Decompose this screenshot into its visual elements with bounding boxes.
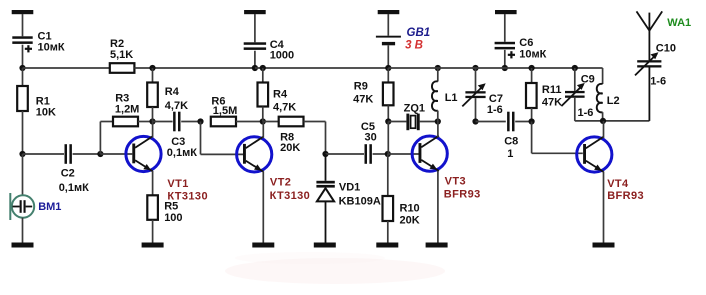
label R9	[353, 81, 373, 106]
svg-text:VT2: VT2	[270, 176, 291, 188]
svg-text:VD1: VD1	[339, 182, 360, 194]
wire R11 to C8 node	[531, 108, 533, 122]
wire C6 to rail	[504, 50, 506, 68]
wire VT3 emitter	[437, 171, 439, 243]
wire to ZQ1	[388, 121, 406, 123]
node ZQ1 left junction	[385, 118, 391, 124]
crystal ZQ1	[406, 114, 419, 131]
wire VT4 collector	[603, 121, 605, 138]
wire R3 left lead	[100, 121, 113, 123]
svg-text:BFR93: BFR93	[444, 189, 481, 201]
svg-text:1,5M: 1,5M	[213, 105, 237, 117]
capacitor C5	[365, 144, 372, 164]
wire R8 to VD1 corner	[304, 122, 326, 155]
svg-text:0,1мК: 0,1мК	[167, 147, 197, 159]
resistor R1	[17, 86, 28, 111]
wire R10 to ground	[387, 221, 389, 243]
wire VT2 base riser	[201, 122, 244, 155]
ground (VT3)	[426, 243, 448, 248]
battery GB1	[376, 36, 401, 46]
node VD1 junction	[322, 151, 328, 157]
node C8 junction	[529, 118, 535, 124]
svg-text:GB1: GB1	[407, 27, 431, 39]
svg-text:VT3: VT3	[445, 176, 466, 188]
node VT2 collector junction	[260, 118, 266, 124]
svg-text:3 В: 3 В	[405, 40, 423, 52]
svg-text:1-6: 1-6	[578, 107, 594, 119]
background smudge	[225, 258, 445, 284]
label R1	[36, 95, 56, 118]
wire rail R2 to C4	[134, 67, 255, 69]
wire VD1 node to C5	[326, 153, 365, 155]
wire VT4 base route	[532, 122, 583, 154]
resistor R6	[211, 117, 236, 127]
svg-text:WA1: WA1	[667, 17, 691, 29]
svg-text:C10: C10	[656, 43, 676, 55]
wire R9 stem	[387, 68, 389, 83]
wire R5 to ground	[152, 220, 154, 243]
wire R3 node riser	[99, 122, 101, 155]
ground (VT4)	[593, 243, 615, 248]
label R5	[164, 200, 182, 224]
wire top rail left segment	[23, 67, 111, 69]
label VT1	[167, 178, 208, 202]
node L2 bottom junction	[600, 118, 606, 124]
svg-text:VT1: VT1	[167, 178, 188, 190]
wire C1 to rail	[22, 45, 24, 68]
svg-text:R10: R10	[400, 203, 420, 215]
resistor R4 (second)	[258, 83, 269, 107]
node R3 feed junction	[97, 151, 103, 157]
svg-text:10мК: 10мК	[519, 49, 546, 61]
label R2	[110, 38, 133, 61]
wire R10 stem	[387, 154, 389, 196]
label C8	[504, 136, 518, 160]
resistor R10	[383, 196, 394, 221]
label R3	[115, 93, 139, 116]
capacitor C9 (trimmer)	[561, 68, 584, 121]
svg-text:BFR93: BFR93	[607, 190, 644, 202]
resistor R2	[110, 63, 135, 73]
node C9 rail junction	[572, 65, 578, 71]
wire base VT1	[100, 153, 132, 155]
label R11	[542, 84, 562, 108]
node R4b rail junction	[260, 65, 266, 71]
wire node to R8	[263, 121, 279, 123]
ground (VD1)	[314, 243, 336, 248]
resistor R4 (first)	[147, 83, 158, 108]
svg-text:1,2M: 1,2M	[115, 104, 139, 116]
svg-text:C8: C8	[504, 136, 518, 148]
transistor VT2	[237, 137, 272, 172]
power return bar (top, C6)	[495, 10, 517, 14]
wire R1 stem top	[22, 68, 24, 86]
capacitor C3	[173, 112, 180, 132]
varicap VD1	[316, 154, 334, 243]
wire node to C3	[153, 121, 173, 123]
label C9	[578, 74, 595, 119]
wire R4a to node	[152, 107, 154, 122]
wire tank node down	[387, 122, 389, 155]
label R4 first	[165, 86, 188, 112]
wire mid line to C2	[23, 153, 65, 155]
svg-text:47K: 47K	[353, 94, 373, 106]
node VT3 base junction	[385, 151, 391, 157]
svg-text:L1: L1	[445, 92, 458, 104]
svg-text:КТ3130: КТ3130	[270, 190, 311, 202]
capacitor C7 (trimmer)	[462, 68, 485, 122]
ground (BM1)	[12, 243, 34, 248]
resistor R9	[383, 83, 394, 106]
svg-text:C2: C2	[61, 168, 75, 180]
wire VT3 base	[388, 153, 419, 155]
svg-text:100: 100	[164, 212, 182, 224]
svg-text:47K: 47K	[542, 97, 562, 109]
node L1 bottom junction	[435, 118, 441, 124]
svg-text:1000: 1000	[270, 49, 294, 61]
wire GB1 to rail	[387, 45, 389, 68]
wire C1 top stem	[22, 14, 24, 36]
label R6	[211, 96, 237, 117]
label C2	[59, 168, 89, 194]
label WA1	[667, 17, 691, 29]
node R11 rail junction	[529, 65, 535, 71]
capacitor C1	[12, 36, 32, 52]
inductor L2	[597, 68, 603, 121]
svg-text:L2: L2	[607, 95, 620, 107]
label ZQ1	[404, 102, 425, 114]
node GB1 rail junction	[385, 65, 391, 71]
svg-text:R4: R4	[273, 89, 288, 101]
wire rail C4 to GB1	[255, 67, 388, 69]
svg-text:ZQ1: ZQ1	[404, 102, 425, 114]
capacitor C2	[65, 144, 72, 164]
label C5	[361, 121, 377, 144]
wire VT2 collector	[262, 122, 264, 138]
label C3	[167, 136, 197, 159]
power return bar (top, C1)	[12, 10, 34, 14]
svg-text:4,7K: 4,7K	[165, 100, 188, 112]
capacitor C6	[495, 42, 515, 59]
svg-text:VT4: VT4	[607, 178, 629, 190]
resistor R11	[526, 83, 537, 108]
wire rail GB1 to L2	[388, 67, 602, 69]
label C6	[519, 37, 546, 61]
node mid-left junction	[19, 151, 25, 157]
svg-text:5,1K: 5,1K	[110, 49, 133, 61]
svg-text:C9: C9	[581, 74, 595, 86]
wire C5 to VT3 node	[373, 153, 388, 155]
label C10	[650, 43, 676, 88]
node C6 rail junction	[502, 65, 508, 71]
wire R4a stem top	[152, 68, 154, 83]
resistor R5	[147, 195, 158, 220]
svg-text:4,7K: 4,7K	[273, 102, 296, 114]
svg-text:R11: R11	[542, 84, 562, 96]
wire VT4 emitter	[603, 172, 605, 243]
svg-text:1-6: 1-6	[487, 104, 503, 116]
svg-text:C6: C6	[519, 37, 533, 49]
svg-text:30: 30	[365, 132, 377, 144]
antenna WA1	[637, 11, 663, 60]
resistor R8	[279, 117, 304, 127]
label GB1	[405, 27, 430, 52]
wire GB1 top stem	[387, 14, 389, 36]
svg-text:R9: R9	[354, 81, 368, 93]
ground (R10)	[376, 243, 398, 248]
wire VT3 collector	[437, 122, 439, 138]
label VD1	[339, 182, 381, 208]
wire C4 top stem	[254, 14, 256, 42]
svg-text:10мК: 10мК	[38, 42, 65, 54]
label R10	[400, 203, 420, 227]
label C1 value	[38, 31, 65, 54]
label R8	[280, 131, 300, 154]
node rail-left junction	[19, 65, 25, 71]
svg-text:C3: C3	[171, 136, 185, 148]
node R4a rail junction	[149, 65, 155, 71]
wire R3 to node	[138, 121, 153, 123]
power return bar (top, GB1)	[378, 10, 400, 14]
node R6 left junction	[197, 118, 203, 124]
label R4 second	[273, 89, 296, 114]
svg-text:10K: 10K	[36, 106, 56, 118]
svg-text:R5: R5	[164, 200, 178, 212]
svg-text:1-6: 1-6	[650, 76, 666, 88]
wire VT2 emitter	[262, 171, 264, 242]
svg-text:20K: 20K	[400, 215, 420, 227]
transistor VT3	[412, 136, 447, 171]
ground (VT2)	[252, 243, 274, 248]
wire R11 stem	[531, 68, 533, 83]
microphone BM1	[10, 193, 34, 220]
node L1 rail junction	[435, 65, 441, 71]
svg-text:R4: R4	[165, 86, 180, 98]
wire C2 to R3 node	[73, 153, 101, 155]
ground (R5)	[142, 243, 164, 248]
wire C9 bottom line	[575, 120, 650, 122]
wire R1 to mid line	[22, 111, 24, 154]
node C7 rail junction	[472, 65, 478, 71]
wire mic to ground	[22, 218, 24, 243]
node C4 rail junction	[252, 65, 258, 71]
wire C8 to node	[515, 121, 531, 123]
label C4	[270, 39, 294, 61]
wire VT1 collector	[152, 122, 154, 138]
label C7	[487, 93, 503, 116]
wire R9 to tank node	[387, 105, 389, 121]
svg-text:0,1мК: 0,1мК	[59, 182, 89, 194]
svg-text:1: 1	[507, 148, 513, 160]
wire C7 node to C8	[476, 121, 506, 123]
wire R4b stem	[262, 68, 264, 83]
wire ZQ1 to L1 node	[420, 121, 438, 123]
label BM1	[38, 201, 61, 213]
power return bar (top, C4)	[244, 10, 266, 14]
wire mic stem top	[22, 154, 24, 196]
svg-text:20K: 20K	[280, 142, 300, 154]
wire C3 to R6 node	[181, 121, 200, 123]
wire C4 to rail	[254, 51, 256, 68]
label VT2	[270, 176, 311, 202]
svg-text:KB109A: KB109A	[339, 196, 381, 208]
inductor L1	[432, 68, 438, 122]
capacitor C4	[244, 42, 266, 50]
wire R4b to node	[262, 107, 264, 122]
node VT1 collector junction	[149, 118, 155, 124]
svg-text:BM1: BM1	[38, 201, 61, 213]
label VT4	[607, 178, 644, 202]
transistor VT1	[126, 136, 161, 171]
capacitor C8	[507, 112, 514, 132]
resistor R3	[113, 117, 138, 127]
label VT3	[444, 176, 481, 201]
wire R6 to VT2 node	[236, 121, 263, 123]
transistor VT4	[577, 137, 612, 172]
wire C6 top stem	[504, 14, 506, 42]
capacitor C10 (trimmer)	[635, 52, 661, 121]
wire VT1 emitter	[152, 171, 154, 195]
label L2	[607, 95, 620, 107]
label L1	[445, 92, 458, 104]
node C7 bottom junction	[472, 118, 478, 124]
